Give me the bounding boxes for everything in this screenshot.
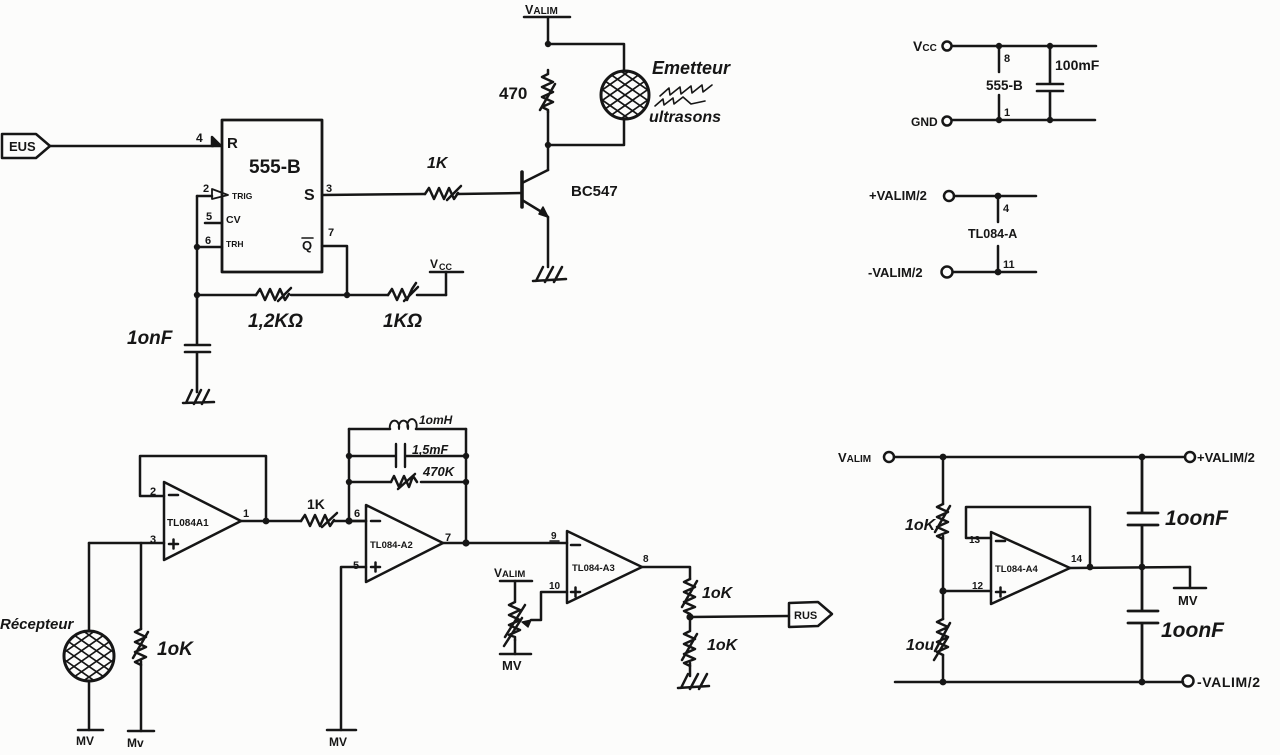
- wire transducer to ground: [88, 681, 91, 730]
- svg-text:5: 5: [206, 211, 212, 223]
- resistor 1K base: [425, 186, 461, 200]
- wire top rail: [894, 456, 1185, 459]
- svg-text:+VALIM/2: +VALIM/2: [869, 188, 927, 203]
- node EUS input tag: [2, 134, 50, 158]
- wire MV stub: [1189, 567, 1192, 588]
- wire A1 output: [241, 520, 301, 523]
- svg-text:1K: 1K: [307, 496, 325, 512]
- svg-text:100mF: 100mF: [1055, 57, 1100, 73]
- power -VALIM/2 output terminal: [1183, 674, 1261, 690]
- transistor Q1 BC547: [522, 170, 548, 217]
- svg-text:8: 8: [643, 554, 649, 565]
- node junction mid: [344, 292, 350, 298]
- wire res branch: [349, 481, 466, 484]
- pin 9 label: [550, 531, 559, 542]
- op-amp U4 TL084-A4: [991, 532, 1070, 604]
- svg-text:TL084A1: TL084A1: [167, 518, 209, 529]
- wire bottom net: [197, 247, 446, 295]
- node A1 output: [263, 518, 270, 525]
- node pin 12: [939, 587, 946, 594]
- svg-text:1onF: 1onF: [127, 328, 174, 349]
- svg-text:1omH: 1omH: [419, 413, 453, 427]
- wire pin6 stub: [349, 520, 366, 523]
- wire 470 to node: [547, 112, 550, 145]
- svg-text:BC547: BC547: [571, 183, 618, 200]
- svg-text:6: 6: [205, 235, 211, 247]
- emitter transducer: [585, 46, 665, 144]
- ground divider: [678, 674, 709, 689]
- wire 10K top: [140, 543, 143, 629]
- svg-text:3: 3: [326, 183, 332, 195]
- wire to bottom rail: [942, 655, 945, 682]
- svg-text:ultrasons: ultrasons: [649, 109, 721, 126]
- wire pin7 down: [322, 246, 347, 295]
- pin 4 inversion mark: [212, 137, 221, 146]
- svg-text:GND: GND: [911, 115, 938, 129]
- svg-text:Q: Q: [302, 238, 312, 253]
- wire 1K to base: [457, 193, 522, 194]
- node pin6 junction: [345, 517, 352, 524]
- power VALIM pot terminal: [494, 566, 532, 581]
- svg-text:1: 1: [243, 508, 249, 520]
- svg-text:MV: MV: [329, 735, 347, 749]
- power VALIM terminal right: [838, 450, 894, 465]
- wire pin2 down to pin6: [196, 196, 199, 247]
- svg-text:TL084-A4: TL084-A4: [995, 564, 1038, 575]
- junction pin2/pin6: [194, 244, 200, 250]
- wire Vcc rail: [952, 45, 1096, 48]
- svg-text:4: 4: [196, 131, 203, 145]
- svg-text:4: 4: [1003, 203, 1010, 215]
- svg-text:12: 12: [972, 581, 984, 592]
- svg-text:MV: MV: [502, 658, 522, 673]
- capacitor 1,5mF: [349, 444, 466, 467]
- ground MV pin5: [327, 730, 356, 749]
- resistor 470: [540, 70, 555, 112]
- svg-text:Emetteur: Emetteur: [652, 58, 731, 78]
- wire node to RUS: [690, 616, 789, 617]
- svg-text:470K: 470K: [422, 464, 456, 479]
- svg-text:1oonF: 1oonF: [1165, 507, 1229, 530]
- svg-text:3: 3: [150, 534, 156, 546]
- power Vcc terminal: [430, 257, 463, 272]
- svg-text:+VALIM/2: +VALIM/2: [1197, 450, 1255, 465]
- wire 1K to pin6: [334, 520, 366, 523]
- resistor 10K receiver: [133, 629, 148, 665]
- capacitor 100mF: [1037, 46, 1063, 120]
- wire 555 output to transistor base: [322, 194, 425, 195]
- svg-text:1oK: 1oK: [905, 517, 937, 534]
- node Vcc pin8: [996, 43, 1002, 49]
- potentiometer VALIM/2: [504, 581, 525, 646]
- svg-text:V: V: [430, 257, 438, 271]
- capacitor 100nF lower: [1128, 567, 1158, 682]
- svg-text:S: S: [304, 187, 315, 204]
- svg-text:1K: 1K: [427, 155, 449, 172]
- power Vcc terminal top right: [913, 38, 952, 54]
- wire transducer up to pin3 net: [88, 543, 91, 631]
- svg-text:8: 8: [1004, 53, 1010, 65]
- wire A2 output to A3: [443, 542, 567, 545]
- svg-text:Mv: Mv: [127, 736, 144, 750]
- wire pin2 stub: [197, 195, 212, 198]
- resistor 10U splitter: [934, 619, 950, 660]
- svg-text:EUS: EUS: [9, 139, 36, 154]
- svg-text:TL084-A3: TL084-A3: [572, 563, 615, 574]
- wire to pin12 node: [942, 536, 945, 591]
- node divider bottom: [940, 679, 947, 686]
- svg-text:1oK: 1oK: [157, 639, 194, 660]
- svg-text:1oonF: 1oonF: [1161, 619, 1225, 642]
- node cap branch right: [463, 453, 469, 459]
- wire -VALIM/2: [953, 271, 1036, 274]
- wire A3 output: [642, 567, 690, 579]
- power -VALIM/2 terminal: [868, 265, 953, 280]
- svg-text:-VALIM/2: -VALIM/2: [868, 265, 923, 280]
- inductor 10mH: [390, 419, 417, 429]
- node divider top: [940, 454, 947, 461]
- wire pin6: [197, 246, 222, 249]
- ground MV output: [1174, 588, 1206, 608]
- svg-text:1,5mF: 1,5mF: [412, 443, 448, 457]
- svg-text:MV: MV: [76, 734, 94, 748]
- svg-text:Récepteur: Récepteur: [0, 616, 75, 633]
- wire to Vcc: [445, 272, 448, 295]
- svg-text:1KΩ: 1KΩ: [383, 311, 422, 332]
- node collector: [545, 142, 551, 148]
- svg-text:1oK: 1oK: [707, 637, 739, 654]
- svg-text:2: 2: [203, 183, 209, 195]
- power +VALIM/2 output terminal: [1185, 450, 1255, 465]
- wire pot to MV: [514, 640, 517, 654]
- power VALIM terminal: [524, 3, 570, 17]
- wire feedback left rail: [348, 429, 351, 521]
- resistor 1Kohm: [388, 283, 418, 301]
- wire EUS to 555 pin 4: [50, 145, 213, 148]
- svg-text:555-B: 555-B: [249, 157, 301, 178]
- wire TL084 pin 4: [997, 196, 1000, 222]
- ground under 10nF: [183, 390, 214, 404]
- wiper arrow: [522, 620, 531, 627]
- svg-text:11: 11: [1003, 259, 1015, 271]
- node cap junction: [1139, 564, 1146, 571]
- svg-text:1oK: 1oK: [702, 585, 734, 602]
- wire divider lower: [942, 591, 945, 619]
- svg-text:1: 1: [1004, 107, 1010, 119]
- svg-text:TRH: TRH: [226, 239, 243, 249]
- svg-text:TL084-A: TL084-A: [968, 227, 1017, 241]
- capacitor 100nF upper: [1128, 457, 1158, 567]
- svg-text:13: 13: [969, 535, 981, 546]
- wire 555 pin 8: [998, 46, 1001, 72]
- node res branch left: [346, 479, 352, 485]
- wire feedback right rail: [465, 429, 468, 543]
- wire to emitter transducer: [548, 44, 624, 71]
- ultrasound squiggle: [655, 85, 712, 106]
- svg-text:VALIM: VALIM: [525, 3, 558, 17]
- wire A4 output: [1070, 567, 1190, 568]
- op-amp U2 TL084-A2: [366, 505, 443, 582]
- node pin4: [995, 193, 1002, 200]
- Qbar label: [302, 238, 313, 253]
- resistor 10K upper divider: [682, 579, 697, 614]
- svg-text:CV: CV: [226, 214, 241, 226]
- resistor 1,2Kohm: [256, 288, 291, 301]
- svg-text:R: R: [227, 135, 238, 152]
- wire bottom rail: [895, 681, 1183, 684]
- IC 555-B body: [222, 120, 322, 272]
- pin 2 triangle marker: [212, 189, 228, 199]
- wire A1 feedback: [140, 456, 266, 521]
- svg-text:1,2KΩ: 1,2KΩ: [248, 311, 303, 332]
- wire 10K to ground: [140, 661, 143, 731]
- wire pin3 net: [89, 542, 164, 545]
- wire top branch: [349, 428, 466, 431]
- node RUS output tag: [789, 602, 832, 627]
- wire to ground: [689, 663, 692, 676]
- resistor 10K lower divider: [682, 617, 697, 666]
- svg-text:14: 14: [1071, 554, 1083, 565]
- node collector top: [545, 41, 551, 47]
- svg-text:CC: CC: [439, 262, 452, 272]
- wire pin5 to ground: [341, 567, 366, 730]
- svg-text:470: 470: [499, 84, 527, 103]
- wire 555 pin 1: [998, 95, 1001, 120]
- node cap2 bottom: [1139, 679, 1146, 686]
- wire emitter to ground: [547, 217, 550, 267]
- node junction left: [194, 292, 200, 298]
- wire A4 feedback: [966, 507, 1090, 567]
- resistor 470K: [391, 474, 417, 489]
- ground MV pot: [500, 654, 531, 673]
- node cap1 top: [1139, 454, 1146, 461]
- svg-text:6: 6: [354, 508, 360, 520]
- wire to node: [689, 614, 692, 617]
- svg-text:-VALIM/2: -VALIM/2: [1197, 674, 1261, 690]
- wire +VALIM/2: [954, 195, 1036, 198]
- ground emitter: [533, 267, 566, 282]
- resistor 1K interstage: [301, 513, 337, 527]
- wire divider upper: [942, 457, 945, 504]
- svg-text:1ou: 1ou: [906, 637, 935, 654]
- wire transducer bottom: [548, 119, 624, 145]
- node res branch right: [463, 479, 469, 485]
- node Vcc cap: [1047, 43, 1053, 49]
- receiver transducer: [49, 607, 129, 705]
- node divider: [686, 613, 693, 620]
- wire GND rail: [952, 119, 1095, 122]
- wire pin 12: [943, 590, 991, 593]
- svg-text:VALIM: VALIM: [494, 566, 525, 580]
- svg-text:555-B: 555-B: [986, 78, 1023, 93]
- svg-text:TL084-A2: TL084-A2: [370, 540, 413, 551]
- svg-text:RUS: RUS: [794, 610, 817, 622]
- wire VALIM down: [547, 17, 550, 44]
- wire pin10 step: [531, 592, 567, 620]
- capacitor 10nF: [185, 295, 210, 392]
- svg-text:MV: MV: [1178, 593, 1198, 608]
- wire collector: [547, 145, 550, 170]
- power GND terminal: [911, 115, 952, 129]
- node cap branch left: [346, 453, 352, 459]
- node A2 output feedback: [462, 539, 469, 546]
- wire TL084 pin 11: [997, 246, 1000, 272]
- ground MV 10K: [127, 731, 154, 750]
- node GND cap: [1047, 117, 1053, 123]
- op-amp U1 TL084A1: [164, 482, 241, 560]
- svg-text:7: 7: [328, 227, 334, 239]
- resistor 10K splitter: [935, 504, 950, 539]
- node GND pin1: [996, 117, 1002, 123]
- power +VALIM/2 terminal: [869, 188, 954, 203]
- node feedback output: [1087, 564, 1094, 571]
- svg-text:TRIG: TRIG: [232, 191, 253, 201]
- node pin11: [995, 269, 1002, 276]
- svg-text:10: 10: [549, 581, 561, 592]
- op-amp U3 TL084-A3: [567, 531, 642, 603]
- ground MV transducer: [76, 730, 103, 748]
- pin 5 stub: [205, 222, 222, 225]
